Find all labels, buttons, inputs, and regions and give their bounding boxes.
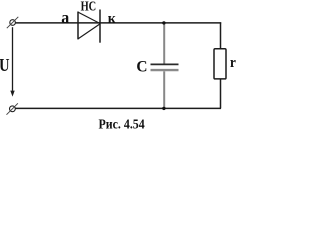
- svg-text:а: а: [61, 8, 69, 27]
- svg-text:к: к: [108, 11, 117, 27]
- svg-text:Рис. 4.54: Рис. 4.54: [99, 117, 145, 132]
- svg-text:C: C: [136, 59, 147, 76]
- svg-text:U: U: [0, 55, 10, 75]
- svg-text:r: r: [230, 55, 237, 71]
- svg-text:НС: НС: [81, 0, 97, 13]
